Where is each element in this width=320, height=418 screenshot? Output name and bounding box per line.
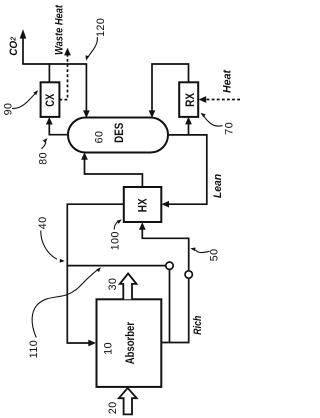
svg-text:Rich: Rich [192, 315, 204, 334]
svg-text:110: 110 [28, 340, 40, 358]
svg-text:40: 40 [37, 216, 49, 229]
svg-text:70: 70 [224, 122, 236, 135]
svg-text:50: 50 [208, 249, 220, 262]
svg-text:Lean: Lean [212, 174, 224, 199]
svg-text:20: 20 [107, 401, 119, 414]
svg-text:80: 80 [37, 152, 49, 165]
svg-text:30: 30 [107, 278, 119, 291]
svg-text:CO2: CO2 [8, 37, 20, 56]
svg-text:DES: DES [112, 123, 126, 143]
svg-text:HX: HX [136, 198, 150, 212]
svg-text:120: 120 [95, 18, 107, 37]
svg-text:10: 10 [103, 342, 115, 355]
svg-text:CX: CX [43, 94, 57, 107]
svg-text:Absorber: Absorber [123, 322, 137, 365]
svg-text:100: 100 [109, 231, 121, 250]
svg-text:RX: RX [183, 93, 197, 107]
svg-text:60: 60 [94, 131, 106, 144]
svg-text:Heat: Heat [221, 69, 233, 93]
svg-text:Waste Heat: Waste Heat [54, 4, 66, 55]
svg-text:90: 90 [3, 103, 15, 116]
